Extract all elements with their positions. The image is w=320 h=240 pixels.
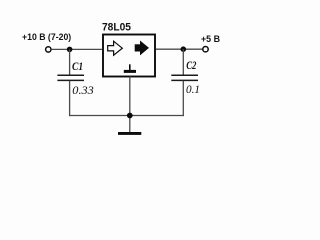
capacitor C1 plates: [57, 75, 84, 80]
U1 input symbol (open arrow): [108, 41, 123, 55]
wire C2 down to bottom rail: [182, 81, 184, 116]
ground: [118, 132, 141, 135]
svg-text:+5 В: +5 В: [201, 34, 220, 44]
svg-text:C1: C1: [72, 61, 83, 73]
svg-text:78L05: 78L05: [102, 22, 131, 34]
op-amp U1 78L05 body: [103, 35, 155, 77]
junction node GND: [127, 113, 133, 119]
U1 output symbol (filled arrow): [135, 41, 149, 55]
svg-text:0.1: 0.1: [186, 84, 200, 96]
junction node B (output): [181, 46, 187, 52]
U1 ground pin stub: [129, 64, 131, 70]
junction node A (input): [67, 47, 73, 53]
wire node B down to C2: [182, 49, 184, 75]
wire regulator output to terminal: [156, 48, 203, 50]
terminal IN (open circle): [46, 47, 51, 52]
capacitor C2 plates: [171, 75, 198, 80]
svg-text:C2: C2: [186, 60, 196, 72]
wire bottom rail: [69, 115, 184, 117]
svg-text:0.33: 0.33: [72, 85, 94, 97]
wire input terminal to regulator: [51, 48, 102, 50]
terminal OUT (open circle): [203, 47, 208, 52]
wire node A down to C1: [69, 49, 71, 74]
svg-text:+10 В (7-20): +10 В (7-20): [22, 32, 71, 42]
wire U1 ground down to bottom rail: [129, 77, 131, 133]
U1 ground pin bar: [124, 70, 136, 73]
wire C1 down to bottom rail: [69, 81, 71, 116]
